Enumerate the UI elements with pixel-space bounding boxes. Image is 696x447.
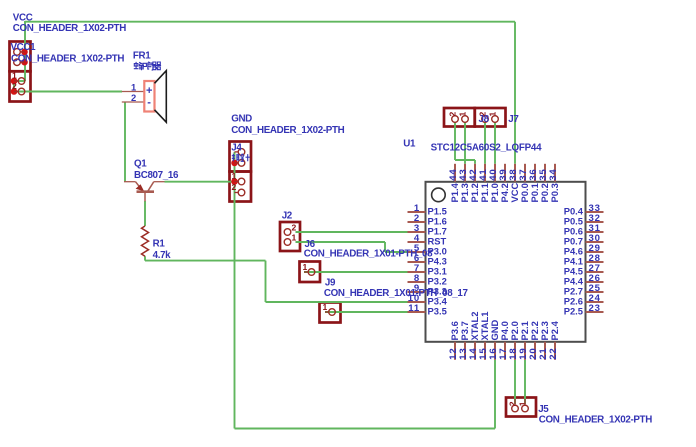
IC U1 pin1 marker circle	[432, 188, 446, 202]
wire net Q1 collector to GND header	[165, 181, 235, 183]
connector J7 box	[475, 108, 506, 127]
svg-text:1: 1	[303, 262, 308, 272]
label J9 name	[325, 278, 336, 289]
pin pad J5 pin1	[522, 405, 529, 412]
pin pad J7 pin2	[482, 116, 489, 123]
wire net R1 to U1 pin10	[266, 301, 409, 303]
junction dot J3 pin2	[11, 88, 18, 95]
svg-text:CON_HEADER_1X02-PTH: CON_HEADER_1X02-PTH	[13, 23, 126, 34]
svg-text:1: 1	[232, 171, 237, 181]
label GND value	[231, 125, 344, 136]
wire net J8 pin1 to U1 pin42	[474, 160, 476, 164]
connector J2 box	[280, 222, 300, 251]
label J4 name	[231, 143, 242, 154]
svg-text:2: 2	[448, 112, 458, 117]
pin pad J6 pin1	[304, 269, 315, 276]
svg-text:J7: J7	[508, 114, 519, 125]
U1 bottom pin names	[449, 312, 560, 341]
J5 pin numbers (rotated)	[508, 401, 528, 406]
J9 pin number	[323, 302, 328, 312]
pin pad J4 pin2	[235, 160, 245, 167]
pin pad J9 pin1	[325, 309, 335, 316]
wire net J2 pin1 to U1 pin5	[385, 251, 408, 253]
svg-text:2: 2	[232, 182, 237, 192]
wire GND net bottom rail	[235, 428, 496, 430]
label Q1 name	[134, 159, 147, 170]
wire GND net vertical	[234, 152, 236, 429]
J7 pin numbers (rotated)	[478, 112, 498, 117]
svg-text:STC12C5A60S2_LQFP44: STC12C5A60S2_LQFP44	[431, 143, 542, 154]
svg-text:VCC: VCC	[13, 13, 33, 24]
J6 pin number	[303, 262, 308, 272]
label J7 name	[508, 114, 519, 125]
pin pad J3 pin1	[14, 78, 25, 85]
junction dot GND header bottom pin1	[231, 178, 238, 185]
U1 left pin names	[428, 206, 448, 317]
U1 right pin lines 33-23	[586, 212, 604, 312]
wire VCC net J3 pin1-pin2	[13, 81, 15, 92]
buzzer FR1 body	[144, 81, 154, 112]
U1 top pin lines 44-34	[455, 164, 555, 182]
U1 top pin numbers	[448, 169, 559, 181]
buzzer FR1 cone	[155, 71, 167, 123]
label J8 name	[479, 114, 490, 125]
connector J4 (GND header top) box	[230, 142, 252, 172]
connector J3 (VCC1 header) box	[10, 71, 31, 101]
svg-text:CON_HEADER_1X01-PTH_08_17: CON_HEADER_1X01-PTH_08_17	[324, 288, 469, 299]
wire net J7 pin2 to U1 pin41	[484, 122, 486, 163]
svg-text:J5: J5	[538, 404, 549, 415]
J5 pin stub lines	[515, 399, 525, 405]
label J2 name	[282, 210, 293, 221]
label GND name	[231, 114, 252, 125]
svg-text:FR1: FR1	[133, 51, 151, 62]
wire net J2 pin1 jog down	[384, 242, 386, 252]
U1 top pin names	[449, 182, 560, 202]
svg-text:J8: J8	[479, 114, 490, 125]
pin pad J8 pin1	[462, 116, 469, 123]
svg-text:CON_HEADER_1X02-PTH: CON_HEADER_1X02-PTH	[539, 415, 652, 426]
junction dot J1 pin1	[21, 49, 28, 56]
svg-text:1: 1	[323, 302, 328, 312]
transistor Q1 emitter arrow	[136, 184, 145, 191]
svg-text:34: 34	[548, 169, 559, 181]
label VCC value	[13, 23, 126, 34]
connector J6 box	[300, 262, 321, 283]
wire VCC net jog left	[14, 80, 25, 82]
J4 value 排针 (pin header)	[232, 154, 250, 162]
label J5 value	[539, 415, 652, 426]
label J5 name	[538, 404, 549, 415]
pin pad J1 pin1	[14, 49, 25, 56]
junction dot J1 pin2	[21, 59, 28, 66]
wire VCC net vertical to U1 pin38	[514, 22, 516, 164]
svg-text:J4: J4	[231, 143, 242, 154]
svg-text:GND: GND	[231, 114, 252, 125]
connector GND header bottom box	[230, 172, 252, 202]
label VCC name	[13, 13, 33, 24]
svg-text:1: 1	[458, 112, 468, 117]
pin pad J3 pin2	[14, 88, 25, 95]
wire net J2 pin2 to U1 pin3	[296, 231, 409, 233]
U1 right pin numbers	[589, 203, 601, 314]
svg-text:1: 1	[12, 71, 17, 81]
U1 left pin lines 1-11	[408, 212, 426, 312]
svg-text:4.7k: 4.7k	[153, 250, 172, 261]
J2 pin numbers	[292, 222, 297, 242]
wire net J2 pin1 horizontal	[296, 241, 386, 243]
label U1 name	[403, 139, 416, 150]
svg-text:J2: J2	[282, 210, 293, 221]
wire net J8 pin1 jog	[455, 159, 475, 161]
svg-text:22: 22	[548, 348, 559, 360]
wire net J6 to U1 pin7	[304, 271, 408, 273]
buzzer FR1 polarity marks	[146, 85, 152, 109]
svg-text:R1: R1	[153, 239, 166, 250]
pin pad GND bottom pin2	[235, 189, 245, 196]
U1 right pin names	[564, 206, 584, 317]
pin pad J7 pin1	[492, 116, 499, 123]
svg-text:2: 2	[131, 92, 136, 103]
wire net J8 pin2 to U1 pin43	[464, 122, 466, 163]
svg-text:1: 1	[131, 82, 136, 93]
wire net J8 pin1 down	[454, 122, 456, 160]
resistor R1 zigzag	[142, 226, 149, 256]
wire net R1 bottom stub	[144, 256, 146, 260]
svg-text:P3.5: P3.5	[428, 306, 447, 317]
wire net J7 pin1 to U1 pin40	[494, 122, 496, 163]
svg-text:VCC1: VCC1	[11, 42, 37, 53]
svg-text:BC807_16: BC807_16	[134, 170, 179, 181]
label R1 value	[153, 250, 172, 261]
svg-text:P2.4: P2.4	[549, 320, 560, 340]
pin pad J2 pin2	[284, 229, 291, 236]
junction dot J3 pin1	[11, 78, 18, 85]
wire net FR1 pin2 to Q1 emitter	[124, 102, 126, 182]
GND bottom pin numbers	[232, 171, 237, 192]
svg-text:+: +	[146, 85, 152, 97]
svg-text:11: 11	[408, 303, 420, 314]
svg-text:CON_HEADER_1X02-PTH: CON_HEADER_1X02-PTH	[231, 125, 344, 136]
svg-text:-: -	[147, 97, 151, 109]
wire net to FR1 pin1	[14, 91, 122, 93]
svg-text:2: 2	[292, 222, 297, 232]
wire net J9 to U1 pin11	[325, 311, 408, 313]
pin pad J5 pin2	[512, 405, 519, 412]
svg-text:Q1: Q1	[134, 159, 147, 170]
svg-text:J9: J9	[325, 278, 336, 289]
svg-text:CON_HEADER_1X02-PTH: CON_HEADER_1X02-PTH	[11, 54, 124, 65]
svg-text:P2.5: P2.5	[564, 306, 583, 317]
svg-text:CON_HEADER_1X01-PTH_08: CON_HEADER_1X01-PTH_08	[304, 249, 433, 260]
wire net R1 to P3.4 vertical	[265, 261, 267, 302]
pin pad J4 pin1	[235, 149, 245, 156]
buzzer FR1 pin numbers	[131, 82, 136, 104]
wire GND net up to U1 pin16	[494, 360, 496, 429]
wire net U1 pin19 to J5	[524, 360, 526, 404]
pin pad J8 pin2	[452, 116, 459, 123]
J8 pin numbers (rotated)	[448, 112, 468, 117]
label VCC1 value	[11, 54, 124, 65]
svg-text:P0.3: P0.3	[549, 183, 560, 202]
svg-text:2: 2	[508, 401, 518, 406]
U1 bottom pin lines 12-22	[455, 342, 555, 360]
U1 bottom pin numbers	[448, 348, 559, 360]
label J9 value	[324, 288, 469, 299]
connector J5 box	[506, 398, 536, 417]
connector J8 box	[444, 108, 475, 127]
wire net U1 pin18 to J5	[514, 360, 516, 404]
pin pad GND bottom pin1	[235, 178, 245, 185]
junction dot GND header pin2	[231, 160, 238, 167]
wire net Q1 base to R1	[144, 201, 146, 226]
label R1 name	[153, 239, 166, 250]
label VCC1 name	[11, 42, 37, 53]
label FR1 name	[133, 51, 151, 62]
transistor Q1 emitter pin	[124, 182, 142, 190]
FR1 value 蜂鸣器 (buzzer)	[134, 62, 161, 71]
wire VCC net left vertical through J1	[24, 21, 26, 81]
J3 pin numbers	[12, 71, 17, 92]
label J6 value	[304, 249, 433, 260]
transistor Q1 base bar	[137, 190, 155, 193]
pin pad J1 pin2	[14, 59, 25, 66]
wire VCC net top horizontal	[25, 21, 515, 23]
connector J1 (VCC header) box	[10, 42, 31, 72]
transistor Q1 base stub	[144, 192, 146, 202]
svg-text:2: 2	[12, 81, 17, 91]
svg-text:1: 1	[488, 112, 498, 117]
svg-text:U1: U1	[403, 139, 416, 150]
label Q1 value	[134, 170, 179, 181]
IC U1 body	[426, 182, 586, 342]
label U1 value	[431, 143, 542, 154]
label J6 name	[305, 239, 316, 250]
transistor Q1 collector pin	[148, 182, 165, 192]
wire net R1 to P3.4 horizontal	[145, 260, 266, 262]
U1 left pin numbers	[408, 203, 420, 314]
svg-text:1: 1	[518, 401, 528, 406]
svg-text:1: 1	[292, 232, 297, 242]
svg-text:23: 23	[589, 303, 601, 314]
buzzer FR1 pin lines	[122, 92, 144, 103]
pin pad J2 pin1	[284, 239, 291, 246]
connector J9 box	[320, 303, 341, 323]
